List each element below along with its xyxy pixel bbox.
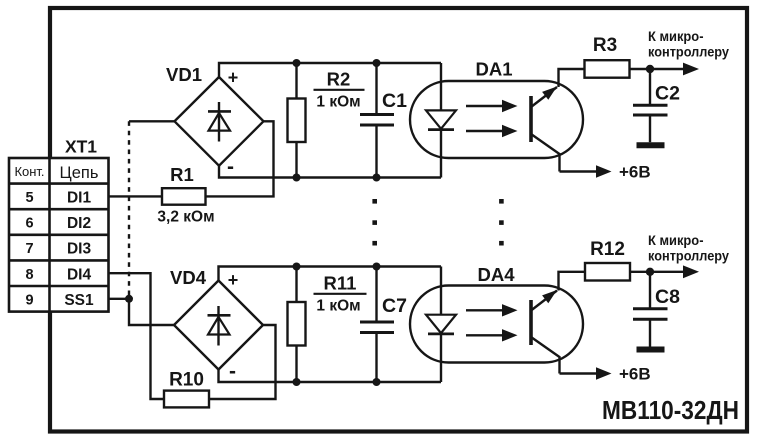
resistor R3: [585, 60, 630, 77]
svg-text:контроллеру: контроллеру: [648, 248, 729, 264]
node: R2 bottom junction: [293, 174, 301, 182]
svg-text:1 кОм: 1 кОм: [316, 298, 360, 315]
wire: SS1 row to junction and down to VD4 left vertex: [109, 299, 175, 325]
svg-text:C7: C7: [382, 295, 407, 317]
node: C7 top junction: [373, 263, 381, 271]
svg-text:ХТ1: ХТ1: [65, 137, 97, 157]
svg-text:+: +: [228, 270, 239, 290]
node: R2 top junction: [293, 59, 301, 67]
arrow +6V (ch2): [596, 367, 612, 379]
wire: bottom rail channel 1 (VD1 - output): [219, 166, 441, 178]
node: C7 bottom junction: [373, 378, 381, 386]
svg-text:R3: R3: [593, 35, 617, 56]
node: R12/C8 junction: [646, 268, 654, 276]
capacitor C1 with leads: [375, 63, 377, 114]
capacitor C7 with leads: [375, 267, 377, 322]
connector XT1 table: [9, 158, 109, 312]
continuation dots column right: [499, 199, 504, 246]
wire: collector to R12: [559, 272, 586, 291]
wire: collector to R3: [559, 69, 585, 87]
svg-text:К микро-: К микро-: [648, 232, 704, 248]
svg-text:DA4: DA4: [477, 264, 515, 285]
svg-text:VD1: VD1: [166, 64, 202, 85]
bridge rectifier VD1: [175, 77, 264, 166]
resistor R12: [585, 263, 630, 281]
resistor R11 with leads: [295, 267, 297, 303]
wire: LED leads of DA1: [440, 63, 442, 110]
node: SS1 junction dot: [125, 295, 133, 303]
optocoupler DA4 body: [410, 286, 583, 363]
coupling arrow 2 of DA1: [466, 125, 518, 137]
wire: LED leads of DA4: [440, 267, 442, 315]
svg-text:C8: C8: [655, 286, 680, 308]
diode symbol inside VD1: [208, 102, 231, 142]
fraction line under R11: [314, 293, 367, 295]
phototransistor of DA1: [531, 87, 560, 172]
svg-text:9: 9: [25, 292, 33, 308]
svg-text:К микро-: К микро-: [648, 28, 704, 44]
resistor R1: [162, 188, 206, 205]
wire: emitter to +6V (ch1): [560, 170, 599, 172]
wire: dashed common line down to SS1 node: [128, 121, 130, 298]
wire: DI4 row down to R10: [109, 273, 165, 399]
wire: R1 to VD1 right vertex: [206, 121, 274, 196]
phototransistor of DA4: [531, 290, 560, 374]
svg-text:DA1: DA1: [475, 59, 512, 80]
svg-text:+6В: +6В: [619, 365, 651, 384]
wire: bottom rail channel 2 (VD4 - output): [219, 370, 442, 383]
svg-text:C1: C1: [382, 90, 407, 112]
svg-text:R2: R2: [327, 69, 351, 90]
wire: R10 to VD4 right vertex: [209, 325, 276, 399]
arrow to microcontroller (ch2): [683, 265, 699, 278]
resistor R2 with leads: [295, 63, 297, 99]
svg-text:Конт.: Конт.: [14, 164, 44, 179]
fraction line under R2: [314, 89, 365, 91]
LED of DA4: [426, 315, 456, 334]
node: R11 bottom junction: [293, 378, 301, 386]
svg-text:Цепь: Цепь: [60, 164, 99, 182]
svg-text:DI3: DI3: [67, 241, 92, 258]
arrow to microcontroller (ch1): [683, 63, 699, 76]
wire: VD1 left vertex to common dashed line: [129, 120, 175, 122]
svg-text:R1: R1: [170, 164, 194, 185]
svg-text:1 кОм: 1 кОм: [316, 94, 360, 111]
node: R11 top junction: [293, 263, 301, 271]
svg-text:8: 8: [25, 267, 33, 283]
svg-text:контроллеру: контроллеру: [648, 44, 729, 60]
coupling arrow 2 of DA4: [466, 329, 518, 341]
optocoupler DA1 body: [410, 81, 583, 158]
ground bar for C2: [637, 142, 665, 148]
svg-text:7: 7: [25, 241, 33, 257]
svg-text:5: 5: [25, 190, 33, 206]
capacitor C8 with leads: [649, 272, 651, 308]
node: C1 bottom junction: [373, 174, 381, 182]
svg-text:R12: R12: [590, 239, 625, 260]
wire: R12 to microcontroller output: [630, 271, 687, 273]
wire: top rail channel 2 (VD4 + output): [219, 267, 442, 281]
svg-text:R10: R10: [169, 369, 204, 390]
diode symbol inside VD4: [208, 306, 231, 346]
capacitor C2 with leads: [649, 69, 651, 104]
wire: emitter to +6V (ch2): [560, 372, 599, 374]
svg-text:DI2: DI2: [67, 215, 91, 232]
coupling arrow 1 of DA1: [466, 100, 518, 112]
continuation dots column left: [372, 199, 377, 246]
svg-text:C2: C2: [655, 83, 680, 105]
bridge rectifier VD4: [174, 281, 263, 370]
svg-text:+: +: [228, 68, 239, 88]
svg-text:3,2 кОм: 3,2 кОм: [157, 209, 214, 226]
svg-text:SS1: SS1: [64, 292, 94, 309]
svg-text:R11: R11: [324, 273, 357, 294]
ground bar for C8: [637, 347, 665, 353]
wire: top rail channel 1 (VD1 + output): [219, 63, 441, 77]
node: C1 top junction: [373, 59, 381, 67]
wire: R3 to microcontroller output: [630, 68, 688, 70]
svg-text:DI4: DI4: [67, 266, 92, 283]
svg-text:VD4: VD4: [170, 267, 207, 288]
resistor R10: [164, 391, 209, 408]
svg-text:DI1: DI1: [67, 190, 92, 207]
coupling arrow 1 of DA4: [466, 304, 518, 316]
LED of DA1: [426, 110, 456, 129]
svg-text:+6В: +6В: [619, 162, 651, 181]
arrow +6V (ch1): [596, 165, 612, 177]
svg-text:МВ110-32ДН: МВ110-32ДН: [602, 395, 739, 425]
wire: DI1 row to R1: [109, 195, 163, 197]
svg-text:6: 6: [25, 216, 33, 232]
svg-text:-: -: [229, 360, 236, 383]
node: R3/C2 junction: [646, 65, 654, 73]
svg-text:-: -: [227, 156, 234, 179]
